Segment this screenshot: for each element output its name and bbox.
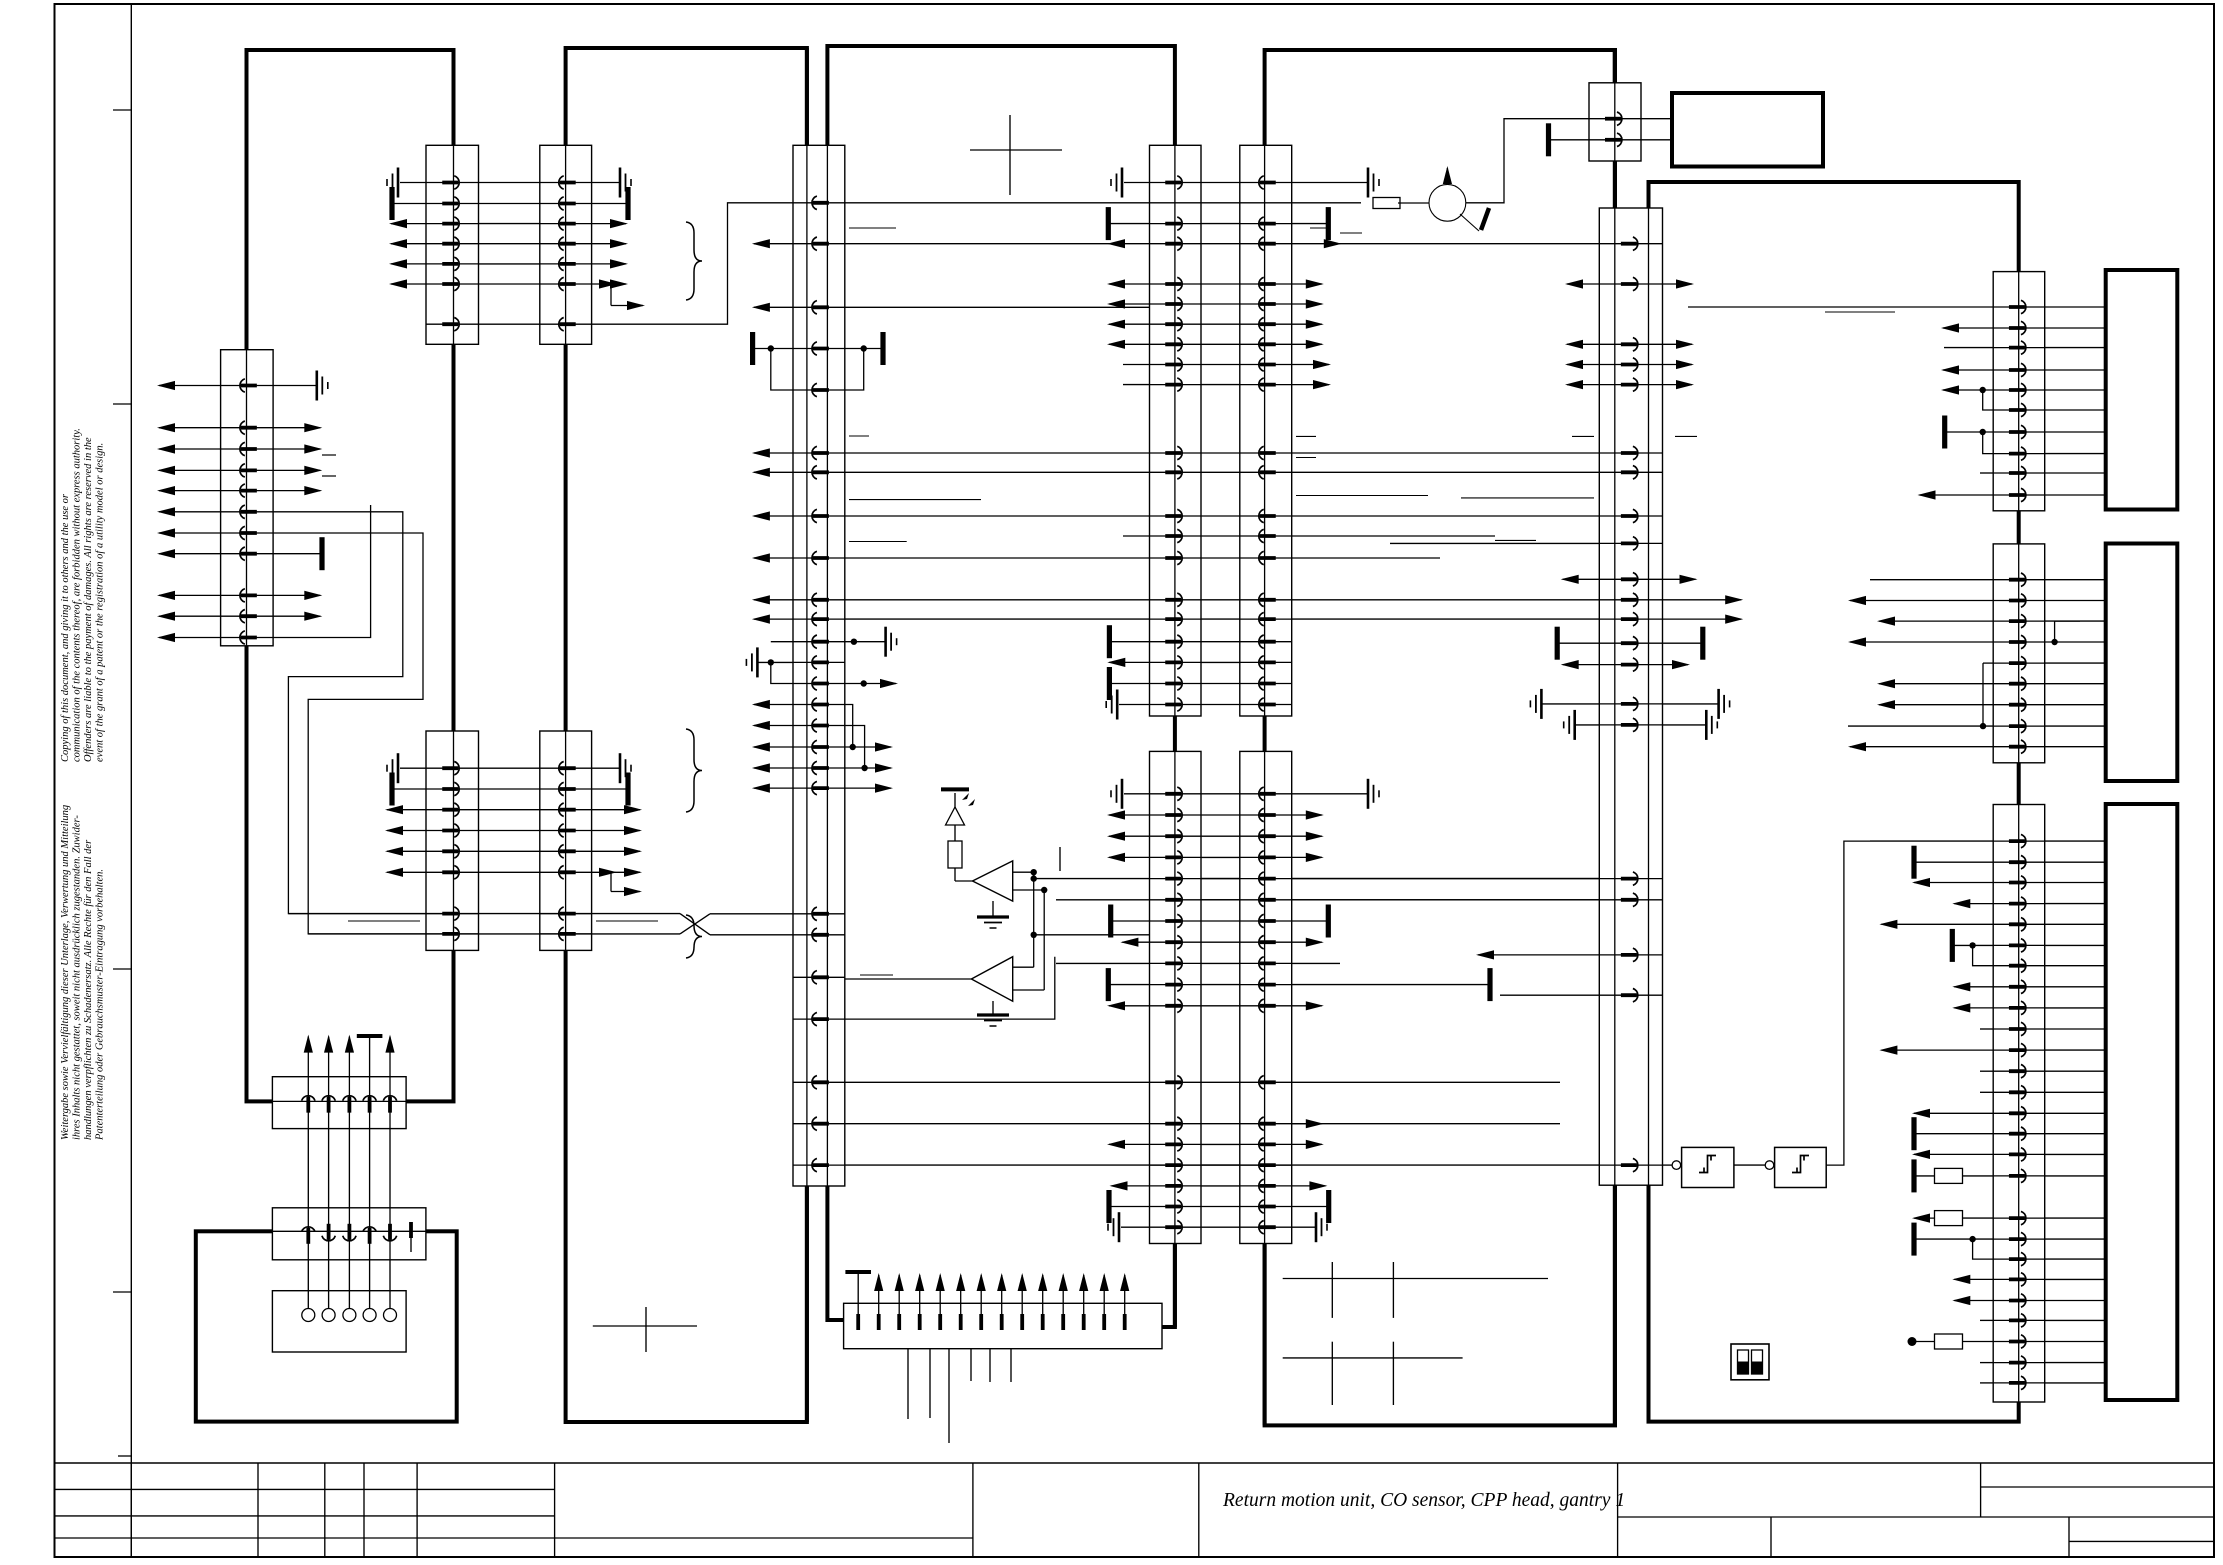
- svg-text:ihres Inhalts nicht gestattet,: ihres Inhalts nicht gestattet, soweit ni…: [72, 815, 83, 1140]
- LED indicator D1: [941, 789, 975, 825]
- X9b left wires: [1848, 580, 1993, 752]
- label ticks near X3: [849, 228, 981, 975]
- title block grid: [55, 1463, 2215, 1557]
- connector X4b on module B left edge (lower): [540, 731, 592, 950]
- motor M symbol: [1429, 166, 1489, 231]
- buffer link verticals and junctions: [1013, 869, 1048, 990]
- fuse F1: [1373, 198, 1429, 209]
- X9b pin4 wire to RB2 upper: [2055, 620, 2080, 622]
- small module box T1 (top right): [1672, 93, 1823, 167]
- X5 upper left stubs: [1106, 365, 1149, 720]
- copyright notice text (english, rotated): [60, 428, 106, 762]
- wires X10 to module T1: [1641, 119, 1672, 140]
- buffer U2: [845, 957, 1044, 1026]
- wire net X1 pin7 to pair X4 row8: [273, 533, 426, 934]
- module C outline (CO sensor): [827, 46, 1175, 1327]
- X11 upward arrows: [304, 1035, 395, 1077]
- module C right edge below X5: [1173, 1244, 1177, 1328]
- shield terminations on pair X4 row2: [392, 773, 628, 806]
- connector X8 on module D/E boundary: [1599, 208, 1662, 1185]
- connector X1 on module A left edge: [221, 50, 274, 646]
- grounds on pair X4 row1: [387, 753, 631, 783]
- connector X2b on module B left edge: [540, 145, 592, 344]
- module E outline (CPP head gantry): [1649, 182, 2019, 1422]
- connector X5 upper on module C right edge: [1150, 145, 1202, 716]
- X7 pins and up arrows: [845, 1272, 1129, 1330]
- wires X3 lower rows right: [845, 957, 1150, 1124]
- crossing signal pair X4 rows 7-8 to X3: [288, 914, 793, 935]
- X3 row4 shield caps and branches: [753, 332, 883, 390]
- right side box RB2: [2106, 544, 2178, 782]
- buffer U1: [955, 847, 1060, 928]
- cable brace 2: [686, 729, 702, 812]
- pair X4 outward arrows: [385, 805, 642, 877]
- X8 left side decorations: [1390, 279, 1694, 995]
- svg-text:communication of the contents: communication of the contents thereof, a…: [72, 428, 83, 762]
- module D outline: [1265, 50, 1615, 1425]
- cable brace 3: [686, 915, 702, 958]
- signal wire X3 row3 right: [845, 306, 1150, 308]
- wire X2b row7 to X3 pin1: [592, 203, 793, 324]
- connector X9a on module E right edge: [1993, 272, 2045, 511]
- connector X7 strip at module C bottom: [844, 1303, 1162, 1348]
- X3 left side arrows: [752, 239, 793, 793]
- bottom-left module box: [196, 1231, 457, 1421]
- X9c left wires: [1870, 841, 1993, 1383]
- wires X3 rows 15-19 right: [845, 705, 893, 793]
- svg-text:event of the grant of a patent: event of the grant of a patent or the re…: [95, 443, 106, 762]
- grounds on pair X2 row1: [387, 168, 631, 198]
- X3 rows 12-14 grounds and links: [746, 627, 898, 688]
- twisted pair labels: [348, 920, 658, 922]
- module D left edge below X6: [1263, 1244, 1267, 1426]
- X8 right side wires: [1663, 543, 1994, 740]
- module A outline (return motion unit): [247, 50, 454, 1101]
- module D right edge / module E left edge verticals: [1613, 50, 1617, 1425]
- title text: Return motion unit, CO sensor, CPP head, gantry 1: [1222, 1490, 1625, 1511]
- X4a-X4b interconnect wires: [479, 768, 540, 872]
- schmitt trigger gates U3/U4: [1663, 841, 1871, 1187]
- X9a right wires to RB1: [2045, 307, 2106, 495]
- connector X9c on module E right edge: [1993, 805, 2045, 1403]
- svg-text:handlungen verpflichten zu Sch: handlungen verpflichten zu Schadenersatz…: [83, 839, 94, 1140]
- wire X3 row1 through X5/X6 to fuse: [845, 202, 1361, 204]
- right side box RB3: [2106, 804, 2178, 1400]
- svg-text:Patenterteilung oder Gebrauchs: Patenterteilung oder Gebrauchsmuster-Ein…: [95, 869, 106, 1141]
- signal wires X3 to X5 upper: [845, 453, 1150, 619]
- reference crosses in module D bottom: [1283, 1262, 1548, 1405]
- wire X3 row2 through to X8 with direction arrows: [845, 239, 1600, 248]
- cable brace 1: [686, 222, 702, 300]
- terminal block X13 with socket circles: [272, 1291, 406, 1352]
- wires X11 to X12: [308, 1129, 390, 1208]
- module B outline: [566, 48, 807, 1422]
- pair X2 outward arrows: [389, 219, 628, 289]
- buffer row long wires to X8: [1031, 875, 1600, 934]
- reference cross in module B bottom: [593, 1307, 697, 1352]
- connector X6 upper on module D left edge: [1240, 145, 1292, 716]
- connector X3 on module B/C boundary: [793, 48, 845, 1186]
- X5/X6 upper outward arrows: [1107, 279, 1331, 389]
- junction and branch on X2 row6: [599, 279, 645, 310]
- wire from X1 pin11 up: [273, 505, 371, 638]
- X7 bottom stubs: [908, 1349, 1011, 1443]
- shield cap at X10 pin2: [1549, 123, 1590, 156]
- svg-text:Return motion unit, CO sensor,: Return motion unit, CO sensor, CPP head,…: [1222, 1490, 1625, 1511]
- wire row 1165.1 X3 to X8 through X5/X6: [845, 1164, 1600, 1166]
- shield terminations X5/X6 row2: [1108, 207, 1362, 240]
- X6 wires into module D upper: [1292, 453, 1600, 619]
- junction and branch on X4 row6: [599, 868, 642, 896]
- wires X12 to terminal block: [308, 1260, 390, 1309]
- right side box RB1: [2106, 270, 2178, 510]
- shield terminations on pair X2 row2: [392, 187, 628, 220]
- X5-X6 interconnect wires: [1201, 183, 1240, 1228]
- svg-text:Offenders are liable to the pa: Offenders are liable to the payment of d…: [83, 437, 94, 762]
- frame fold marks: [113, 110, 131, 1456]
- X2a-X2b interconnect wires: [479, 183, 540, 325]
- connector X12 on bottom-left box top edge: [272, 1208, 426, 1260]
- copyright notice text (german, rotated): [60, 805, 106, 1141]
- connector X10 (top small): [1589, 50, 1641, 161]
- resistor R1: [948, 825, 962, 881]
- connector X4a on module A right edge (lower): [426, 344, 479, 950]
- connector X9b on module E right edge: [1993, 544, 2045, 763]
- X9b pin4 branch right: [2051, 621, 2057, 645]
- connector X5 lower on module C right edge: [1150, 751, 1202, 1243]
- DIP switch S1: [1731, 1344, 1769, 1380]
- svg-text:Weitergabe sowie Vervielfältig: Weitergabe sowie Vervielfältigung dieser…: [60, 805, 71, 1140]
- connector X11 on module A bottom edge: [272, 1077, 406, 1129]
- X9c right wires to RB3: [2045, 841, 2106, 1383]
- connector X2a on module A right edge: [426, 145, 479, 344]
- grounds on X5/X6 row1: [1111, 168, 1379, 198]
- X9a left wires: [1688, 307, 1993, 500]
- ground at X1 pin 1: [273, 371, 328, 401]
- label ticks module D interior: [1296, 228, 1697, 540]
- connector X6 lower on module D left edge: [1240, 751, 1292, 1243]
- X5/X6 lower arrows and caps: [1056, 810, 1599, 1242]
- svg-text:Copying of this document, and: Copying of this document, and giving it …: [60, 493, 71, 762]
- shield termination at X1 pin 8: [273, 537, 322, 570]
- grounds on X5/X6 lower row1: [1111, 779, 1379, 809]
- X1 wires with arrows to the left: [157, 381, 221, 642]
- X9b right wires to RB2: [2045, 580, 2106, 747]
- reference cross in module C top: [970, 115, 1062, 195]
- module B right edge below X3: [805, 1186, 809, 1422]
- wire net X1 pin6 to pair X4 row7: [273, 512, 426, 914]
- X1 right-side arrows: [273, 423, 336, 621]
- wire motor to connector X10: [1466, 119, 1589, 203]
